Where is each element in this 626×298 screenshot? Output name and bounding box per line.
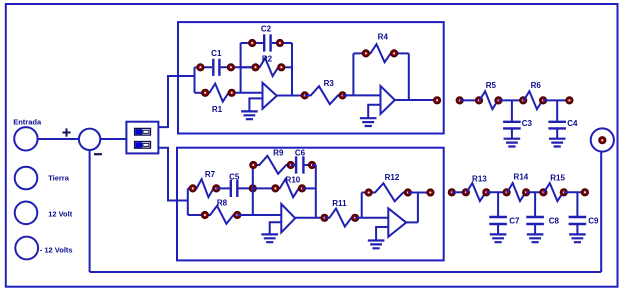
node R6 right	[540, 97, 547, 104]
wire feedback right vertical	[291, 43, 293, 96]
wire C2 row right	[280, 42, 292, 44]
node top ladder in	[456, 97, 463, 104]
node R13 right	[483, 189, 490, 196]
resistor R3	[305, 86, 343, 104]
node R13 left	[463, 189, 470, 196]
node R9 left	[250, 162, 257, 169]
svg-text:C9: C9	[588, 217, 599, 226]
node R2 left	[252, 64, 259, 71]
node R10 right	[299, 185, 306, 192]
selector switch top	[135, 128, 151, 135]
node U3 output	[321, 215, 328, 222]
wire top ladder seg1	[460, 99, 479, 101]
wire R9 lead	[252, 164, 255, 166]
wire R8 row left	[188, 214, 205, 216]
op-amp U4	[388, 208, 406, 237]
svg-text:R6: R6	[531, 81, 542, 90]
wire C1 row left	[195, 66, 201, 68]
svg-text:R5: R5	[486, 81, 497, 90]
svg-text:12 Volt: 12 Volt	[48, 210, 73, 219]
wire bottom ladder seg1	[452, 191, 466, 193]
node R1 right	[228, 90, 235, 97]
node R7 left	[190, 185, 197, 192]
wire R11 to U4	[355, 217, 388, 219]
wire U4 feedback left vertical	[361, 193, 363, 218]
svg-text:R13: R13	[472, 175, 487, 184]
wire R10 row left	[253, 187, 276, 189]
capacitor C5	[216, 180, 253, 197]
resistor R7	[193, 179, 217, 197]
capacitor C7 with ground	[489, 192, 507, 234]
capacitor C4 with ground	[548, 100, 566, 138]
svg-text:R8: R8	[217, 199, 228, 208]
svg-text:R1: R1	[212, 105, 223, 114]
wire C1 row right	[231, 66, 256, 68]
svg-text:R3: R3	[324, 79, 335, 88]
selector switch bottom	[135, 142, 151, 149]
wire U4 non-inverting	[376, 227, 388, 241]
ground U4	[368, 241, 385, 249]
wire R2 row left	[241, 66, 256, 68]
node R4 right	[391, 50, 398, 57]
wire summer down to bottom rail	[89, 150, 91, 272]
resistor R15	[543, 183, 563, 201]
top filter box	[178, 22, 444, 133]
resistor R12	[369, 183, 408, 201]
wire summer to selector box	[100, 138, 126, 140]
svg-text:R10: R10	[286, 176, 301, 185]
svg-text:R9: R9	[273, 149, 284, 158]
node R9 right	[287, 162, 294, 169]
capacitor C2	[252, 34, 280, 51]
svg-text:- 12 Volts: - 12 Volts	[40, 245, 73, 254]
minus sign	[94, 153, 102, 155]
op-amp U3	[281, 204, 295, 232]
plus sign	[62, 128, 70, 136]
wire bottom ladder seg2	[486, 191, 506, 193]
resistor R10	[275, 179, 302, 197]
svg-text:C6: C6	[295, 149, 306, 158]
resistor R13	[466, 183, 486, 201]
resistor R8	[205, 206, 237, 224]
node R4 left	[363, 50, 370, 57]
node R7 right	[213, 185, 220, 192]
node R1 left	[202, 90, 209, 97]
wire R1 row left	[195, 92, 206, 94]
svg-text:R14: R14	[514, 173, 529, 182]
node R10 left	[272, 185, 279, 192]
op-amp U1	[263, 83, 277, 109]
node R15 right	[561, 189, 568, 196]
node R12 right	[405, 189, 412, 196]
node R6 left	[520, 97, 527, 104]
wire Entrada to summer	[37, 138, 79, 140]
ground U3	[261, 234, 278, 242]
wire U2 feedback right vertical	[408, 53, 410, 100]
svg-text:R2: R2	[262, 55, 273, 64]
svg-text:Tierra: Tierra	[48, 174, 70, 183]
node R8 left	[202, 212, 209, 219]
op-amp U2	[381, 86, 395, 114]
wire top input vertical	[194, 67, 196, 93]
wire top ladder seg3	[543, 99, 569, 101]
svg-text:R4: R4	[378, 33, 389, 42]
wire R12 row right	[408, 192, 431, 194]
wire selector to top filter	[158, 76, 194, 127]
bottom filter box	[177, 148, 444, 261]
node U1 output	[302, 92, 309, 99]
node C5 right junction	[250, 185, 257, 192]
capacitor C9 with ground	[569, 192, 587, 234]
wire mid junction vertical	[252, 165, 254, 215]
wire bottom feedback right vertical	[315, 165, 317, 218]
resistor R5	[479, 91, 499, 109]
wire feedback left vertical	[240, 43, 242, 93]
node C1 left	[197, 64, 204, 71]
terminal 12 Volt	[15, 202, 38, 225]
node R3 right	[339, 92, 346, 99]
wire U2 non-inverting	[368, 105, 380, 119]
node bottom ladder in	[449, 189, 456, 196]
svg-text:C3: C3	[522, 119, 533, 128]
resistor R14	[507, 183, 526, 201]
svg-text:C8: C8	[549, 217, 560, 226]
capacitor C3 with ground	[503, 100, 521, 138]
terminal Entrada	[14, 127, 37, 150]
ground U2	[360, 118, 377, 126]
wire R12 row left	[362, 192, 369, 194]
wire bottom ladder seg3	[526, 191, 543, 193]
bottom return rail	[90, 271, 602, 273]
node bottom box output	[427, 189, 434, 196]
wire U4 feedback right vertical	[417, 193, 419, 223]
svg-text:R12: R12	[385, 173, 400, 182]
wire R2 row right	[281, 66, 292, 68]
wire U1 output	[277, 95, 305, 97]
wire U4 output	[406, 221, 418, 223]
wire U2 output	[395, 99, 437, 101]
wire bottom input vertical	[187, 188, 189, 215]
node bottom ladder out	[582, 189, 589, 196]
node R14 left	[503, 189, 510, 196]
svg-text:R7: R7	[205, 170, 216, 179]
node top box output	[434, 97, 441, 104]
wire C2 row left	[241, 42, 253, 44]
node top ladder out	[566, 97, 573, 104]
node R12 left	[365, 189, 372, 196]
output terminal	[591, 128, 614, 151]
svg-text:C1: C1	[211, 49, 222, 58]
node R14 right	[523, 189, 530, 196]
node C2 left	[249, 40, 256, 47]
wire R10 row right	[302, 187, 316, 189]
node R11 right	[352, 215, 359, 222]
resistor R4	[366, 44, 394, 62]
wire U1 non-inverting	[249, 98, 262, 111]
node C6 right	[309, 162, 316, 169]
node C2 right	[277, 40, 284, 47]
wire R8 row to op-amp	[237, 214, 281, 216]
capacitor C1	[200, 59, 231, 76]
svg-text:C4: C4	[567, 119, 578, 128]
svg-text:C2: C2	[261, 25, 272, 34]
node output terminal center	[599, 137, 606, 144]
resistor R1	[205, 84, 232, 102]
wire U3 non-inverting	[270, 222, 282, 234]
wire R7 row left	[188, 187, 193, 189]
svg-text:R11: R11	[332, 199, 347, 208]
svg-text:Entrada: Entrada	[13, 118, 42, 127]
terminal Tierra	[15, 167, 38, 190]
resistor R2	[256, 58, 282, 76]
node R5 right	[495, 97, 502, 104]
wire C6 to right vertical	[312, 164, 316, 166]
wire R4 row right	[394, 52, 409, 54]
capacitor C8 with ground	[526, 192, 544, 234]
resistor R6	[523, 91, 543, 109]
wire bottom ladder seg4	[564, 191, 585, 193]
wire U2 feedback left vertical	[352, 53, 354, 95]
wire U3 output	[295, 217, 324, 219]
terminal -12 Volts	[15, 237, 38, 260]
wire R3 to U2	[343, 94, 381, 96]
ground U1	[241, 111, 258, 119]
wire selector to bottom filter	[158, 148, 187, 201]
node R2 right	[278, 64, 285, 71]
wire R4 row left	[353, 52, 366, 54]
node R15 left	[540, 189, 547, 196]
node C1 right	[228, 64, 235, 71]
node R5 left	[476, 97, 483, 104]
wire R1 row to op-amp	[232, 92, 263, 94]
summing junction circle	[79, 129, 100, 150]
capacitor C6	[291, 156, 312, 173]
node R8 right	[234, 212, 241, 219]
selector box	[126, 122, 158, 154]
resistor R9	[253, 156, 290, 174]
resistor R11	[325, 209, 356, 227]
svg-text:R15: R15	[550, 174, 565, 183]
svg-text:C5: C5	[229, 173, 240, 182]
svg-text:C7: C7	[509, 217, 520, 226]
wire rail up to output terminal	[600, 151, 602, 272]
wire top ladder seg2	[499, 99, 524, 101]
